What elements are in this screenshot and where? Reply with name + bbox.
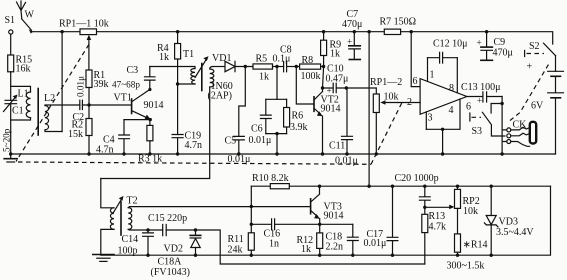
svg-text:VD1: VD1: [212, 53, 231, 64]
svg-text:6: 6: [413, 76, 418, 87]
resistor R3: [138, 120, 162, 165]
svg-text:C1: C1: [12, 106, 24, 117]
svg-text:R7 150Ω: R7 150Ω: [380, 17, 417, 28]
wire L1 top: [11, 86, 31, 92]
svg-text:R10 8.2k: R10 8.2k: [252, 173, 289, 184]
pin 8 stub: [456, 58, 458, 93]
battery 6V: [527, 56, 564, 154]
capacitor C10: [323, 64, 349, 96]
resistor R8: [300, 55, 324, 82]
wire VT1 base: [45, 104, 132, 107]
ground stub pins 3,4: [441, 128, 444, 131]
switch S2: [525, 41, 556, 57]
wire C3 to T1 primary top: [150, 67, 195, 69]
capacitor C7: [342, 9, 362, 60]
wire to RP1-2: [346, 88, 376, 94]
svg-text:W: W: [25, 10, 35, 21]
node VD1 out: [244, 65, 247, 68]
AF wire W1 (base): [128, 207, 310, 208]
pin 2 input: [398, 102, 420, 104]
zener VD3: [484, 185, 534, 257]
wire T1 secondary bottom (long vertical to AF): [101, 87, 210, 179]
svg-text:10k: 10k: [384, 92, 399, 103]
svg-text:VD3: VD3: [499, 217, 518, 228]
capacitor C14: [118, 228, 154, 257]
dashed gang link RP1-2: [371, 102, 403, 165]
svg-text:C6: C6: [251, 124, 263, 135]
svg-text:1k: 1k: [159, 52, 169, 63]
mid ground bus: [11, 153, 556, 155]
svg-text:+: +: [477, 38, 482, 48]
capacitor C13: [461, 82, 502, 113]
capacitor C15: [148, 213, 187, 236]
inductor L1: [11, 89, 31, 121]
node base/R1: [87, 103, 90, 106]
svg-text:S1: S1: [5, 15, 16, 26]
capacitor C19: [172, 131, 202, 156]
ferrite core: [37, 89, 39, 136]
top supply rail: [33, 32, 553, 44]
capacitor C3: [112, 65, 155, 90]
switch S1: [5, 15, 34, 34]
T1 core: [201, 64, 203, 91]
svg-text:L1: L1: [18, 89, 29, 100]
svg-text:47~68p: 47~68p: [112, 80, 140, 90]
svg-text:1: 1: [430, 70, 435, 81]
wire VT1 emitter: [124, 119, 150, 121]
wiper to RP2: [425, 206, 452, 208]
svg-text:1k: 1k: [330, 49, 340, 60]
svg-text:0.01μ: 0.01μ: [335, 156, 358, 167]
svg-text:2.2n: 2.2n: [326, 242, 344, 253]
svg-text:6V: 6V: [531, 101, 544, 112]
supply vertical to AF section: [368, 32, 370, 187]
svg-text:0.47μ: 0.47μ: [326, 74, 349, 85]
T1 tuning arrow: [195, 59, 207, 78]
transistor VT3: [311, 185, 344, 257]
T2 right winding: [128, 208, 132, 230]
wire to T1 primary bottom: [178, 83, 195, 85]
diode VD1: [208, 53, 254, 102]
svg-text:9014: 9014: [144, 100, 164, 111]
transistor VT1: [114, 88, 164, 121]
svg-text:C11: C11: [329, 141, 345, 152]
svg-text:C15 220p: C15 220p: [148, 213, 187, 224]
pin 1 stub: [427, 58, 429, 82]
capacitor C11: [329, 88, 358, 167]
svg-text:RP1—2: RP1—2: [370, 77, 402, 88]
svg-text:470μ: 470μ: [493, 48, 513, 59]
svg-text:4: 4: [449, 105, 454, 116]
capacitor C2: [73, 76, 86, 123]
wire L2 bottom to rail: [61, 32, 63, 132]
resistor R9: [321, 30, 342, 67]
svg-text:100k: 100k: [301, 71, 321, 82]
capacitor C5: [225, 67, 251, 166]
node T1 primary bottom: [176, 82, 179, 85]
op-amp supply wire pin6: [411, 32, 420, 87]
svg-text:+: +: [347, 37, 352, 47]
inductor L2: [44, 93, 62, 132]
capacitor C8: [273, 45, 300, 72]
transformer T2 left winding: [101, 179, 138, 255]
svg-text:C5: C5: [225, 136, 237, 147]
svg-text:300~1.5k: 300~1.5k: [447, 261, 485, 272]
transistor VT2: [296, 67, 340, 156]
svg-text:VT1: VT1: [114, 93, 132, 104]
switch S3: [470, 104, 505, 138]
node C6R6 bottom: [266, 133, 287, 135]
potentiometer RP2: [455, 185, 480, 218]
ground (T2): [93, 254, 114, 256]
dashed gang link bottom: [18, 162, 371, 164]
svg-text:C13 100μ: C13 100μ: [461, 82, 501, 93]
antenna W: [17, 1, 35, 21]
svg-text:R13: R13: [429, 211, 446, 222]
svg-text:3: 3: [428, 113, 433, 124]
transformer T1 secondary: [210, 67, 214, 88]
svg-text:24k: 24k: [228, 245, 243, 256]
svg-text:+: +: [477, 96, 482, 106]
svg-text:16k: 16k: [16, 64, 31, 75]
svg-text:0.01μ: 0.01μ: [228, 154, 251, 165]
svg-text:1k: 1k: [301, 244, 311, 255]
svg-text:C20 1000p: C20 1000p: [395, 173, 439, 184]
svg-text:0.01μ: 0.01μ: [364, 238, 387, 249]
capacitor C4: [96, 120, 130, 156]
svg-text:1n: 1n: [269, 239, 279, 250]
svg-text:3.9k: 3.9k: [290, 122, 308, 133]
potentiometer RP1-2: [370, 77, 402, 156]
resistor R13: [422, 207, 446, 264]
T2 core: [120, 202, 122, 235]
capacitor C12 feedback: [428, 39, 468, 64]
transformer T1 primary: [191, 68, 195, 84]
svg-text:8: 8: [449, 83, 454, 94]
resistor R6: [284, 99, 308, 133]
supply rail W3: [289, 185, 550, 187]
svg-text:9014: 9014: [321, 104, 341, 115]
node C8 out: [295, 65, 298, 68]
potentiometer RP1-1: [59, 19, 109, 71]
svg-text:VD2: VD2: [164, 244, 183, 255]
svg-text:+: +: [527, 62, 533, 73]
svg-text:9014: 9014: [324, 211, 344, 222]
wire collector / R8R9: [323, 67, 324, 89]
capacitor C17: [364, 185, 398, 257]
svg-text:R5: R5: [256, 54, 268, 65]
svg-text:CK: CK: [513, 120, 528, 131]
node: bus left end: [9, 152, 12, 155]
resistor R4: [157, 30, 181, 135]
capacitor C16: [251, 219, 352, 250]
svg-text:0.01μ: 0.01μ: [76, 76, 86, 97]
svg-text:470μ: 470μ: [342, 19, 362, 30]
svg-text:(2AP): (2AP): [208, 91, 232, 102]
capacitor C6: [249, 67, 287, 147]
svg-text:C18A: C18A: [158, 257, 183, 268]
AF wire W2: [128, 229, 425, 264]
svg-text:4.7n: 4.7n: [96, 145, 114, 156]
svg-text:S2: S2: [529, 41, 540, 52]
AF ground rail1: [101, 186, 551, 255]
node R8/R9: [322, 65, 325, 68]
svg-text:39k: 39k: [94, 79, 109, 90]
svg-text:15k: 15k: [68, 129, 83, 140]
svg-text:C14: C14: [122, 234, 139, 245]
svg-text:R6: R6: [292, 111, 304, 122]
capacitor C18: [326, 224, 359, 257]
svg-text:0.01μ: 0.01μ: [249, 135, 272, 146]
svg-text:4.7k: 4.7k: [429, 222, 447, 233]
op-amp U1: [420, 79, 467, 115]
resistor R1: [86, 70, 109, 105]
resistor R15: [8, 34, 32, 100]
resistor R2: [68, 105, 92, 156]
svg-text:5~20p: 5~20p: [2, 128, 12, 152]
svg-text:4.7n: 4.7n: [185, 140, 203, 151]
dashed link CK to S2: [510, 65, 549, 121]
wire C13 out: [501, 97, 503, 155]
svg-text:R11: R11: [228, 234, 244, 245]
svg-text:(FV1043): (FV1043): [151, 267, 190, 278]
svg-text:2: 2: [407, 97, 412, 108]
resistor R5: [253, 54, 284, 83]
dashed gang link RP1-1: [16, 45, 89, 162]
svg-text:+: +: [327, 86, 332, 96]
variable capacitor C1: [2, 95, 24, 159]
resistor R7: [380, 17, 417, 35]
svg-text:T2: T2: [127, 196, 138, 207]
varactor VD2: [164, 228, 201, 257]
svg-text:0.1μ: 0.1μ: [273, 54, 291, 65]
resistor R12: [297, 233, 323, 255]
svg-text:C3: C3: [127, 65, 139, 76]
svg-text:T1: T1: [183, 49, 194, 60]
capacitor C20: [395, 173, 439, 209]
resistor R11: [228, 186, 255, 257]
pin 3 stub: [425, 112, 427, 129]
svg-text:3.5~4.4V: 3.5~4.4V: [496, 227, 534, 238]
svg-text:∗R14: ∗R14: [463, 240, 488, 251]
svg-text:S3: S3: [472, 126, 483, 137]
svg-text:10k: 10k: [463, 206, 478, 217]
node R5 out: [275, 65, 278, 68]
T2 tuning arrow: [113, 198, 123, 214]
pin 4 stub: [426, 99, 460, 129]
resistor R14: [455, 208, 488, 257]
svg-text:1k: 1k: [259, 72, 269, 83]
capacitor C9: [477, 30, 513, 60]
svg-text:RP1—1 10k: RP1—1 10k: [59, 19, 109, 30]
earphone jack CK: [502, 120, 536, 147]
node supply vert / W3: [367, 185, 370, 188]
svg-text:C12 10μ: C12 10μ: [433, 39, 468, 50]
svg-text:R8: R8: [302, 55, 314, 66]
ground (left): [4, 158, 17, 160]
node C10 out: [345, 86, 348, 89]
svg-text:C9: C9: [494, 37, 506, 48]
svg-text:6: 6: [466, 102, 471, 113]
resistor R10: [251, 173, 289, 189]
